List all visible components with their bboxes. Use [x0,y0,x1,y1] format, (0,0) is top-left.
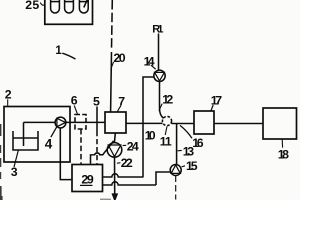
svg-text:2: 2 [166,93,173,107]
svg-text:4: 4 [132,139,139,153]
svg-text:5: 5 [191,159,198,173]
svg-text:7: 7 [215,94,222,108]
svg-text:4: 4 [45,137,53,152]
svg-text:2: 2 [126,156,133,170]
svg-text:6: 6 [197,136,204,150]
svg-text:7: 7 [118,95,125,109]
svg-text:3: 3 [11,165,18,179]
svg-text:5: 5 [93,95,100,109]
svg-text:4: 4 [148,54,155,68]
svg-text:0: 0 [149,129,156,143]
svg-text:9: 9 [87,172,94,186]
svg-text:0: 0 [119,51,126,65]
svg-text:2: 2 [25,0,32,12]
svg-text:8: 8 [282,148,289,162]
svg-text:5: 5 [32,0,39,12]
svg-text:1: 1 [165,135,172,149]
svg-text:1: 1 [55,45,62,57]
svg-text:2: 2 [5,88,12,102]
svg-text:6: 6 [71,94,78,108]
svg-text:R1: R1 [152,24,163,36]
